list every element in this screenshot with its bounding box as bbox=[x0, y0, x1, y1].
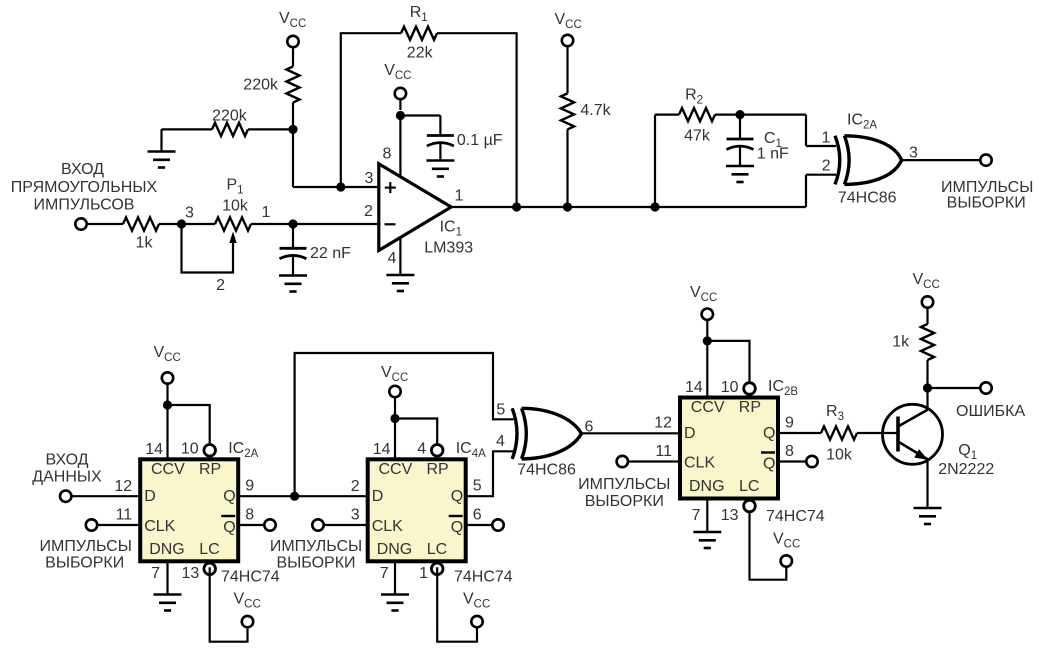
svg-text:14: 14 bbox=[145, 441, 163, 458]
svg-text:4: 4 bbox=[417, 441, 426, 458]
svg-text:1: 1 bbox=[419, 565, 428, 582]
svg-text:74HC86: 74HC86 bbox=[838, 189, 897, 206]
svg-text:2: 2 bbox=[822, 157, 831, 174]
svg-text:D: D bbox=[144, 488, 156, 505]
svg-text:14: 14 bbox=[373, 441, 391, 458]
svg-text:ОШИБКА: ОШИБКА bbox=[956, 403, 1025, 420]
svg-text:0.1 µF: 0.1 µF bbox=[457, 132, 503, 149]
svg-text:DNG: DNG bbox=[689, 478, 725, 495]
svg-text:ВХОД: ВХОД bbox=[45, 452, 88, 469]
svg-text:Q: Q bbox=[763, 456, 775, 473]
svg-text:ИМПУЛЬСЫ: ИМПУЛЬСЫ bbox=[270, 538, 362, 555]
svg-text:3: 3 bbox=[185, 205, 194, 222]
svg-text:22k: 22k bbox=[407, 45, 434, 62]
svg-text:LC: LC bbox=[427, 541, 447, 558]
svg-text:7: 7 bbox=[692, 507, 701, 524]
svg-text:220k: 220k bbox=[243, 77, 279, 94]
svg-text:DNG: DNG bbox=[149, 541, 185, 558]
svg-text:74HC74: 74HC74 bbox=[221, 569, 280, 586]
svg-text:8: 8 bbox=[785, 443, 794, 460]
svg-text:Q: Q bbox=[223, 488, 235, 505]
svg-text:5: 5 bbox=[496, 402, 505, 419]
svg-text:CLK: CLK bbox=[144, 518, 175, 535]
svg-text:74HC86: 74HC86 bbox=[517, 462, 576, 479]
svg-text:CLK: CLK bbox=[372, 518, 403, 535]
svg-text:CCV: CCV bbox=[151, 461, 185, 478]
svg-text:ИМПУЛЬСОВ: ИМПУЛЬСОВ bbox=[34, 196, 135, 213]
svg-text:CCV: CCV bbox=[691, 399, 725, 416]
svg-text:ВЫБОРКИ: ВЫБОРКИ bbox=[276, 554, 355, 571]
svg-text:12: 12 bbox=[654, 415, 672, 432]
svg-text:D: D bbox=[372, 488, 384, 505]
svg-text:8: 8 bbox=[383, 146, 392, 163]
svg-text:1: 1 bbox=[454, 187, 463, 204]
svg-text:LM393: LM393 bbox=[424, 239, 473, 256]
svg-text:Q: Q bbox=[451, 519, 463, 536]
svg-text:74HC74: 74HC74 bbox=[454, 569, 513, 586]
svg-text:2: 2 bbox=[216, 277, 225, 294]
svg-text:3: 3 bbox=[365, 170, 374, 187]
svg-text:220k: 220k bbox=[212, 108, 248, 125]
svg-text:9: 9 bbox=[785, 415, 794, 432]
svg-text:CCV: CCV bbox=[379, 461, 413, 478]
svg-text:LC: LC bbox=[739, 478, 759, 495]
svg-text:1k: 1k bbox=[136, 235, 154, 252]
svg-text:74HC74: 74HC74 bbox=[766, 508, 825, 525]
svg-text:13: 13 bbox=[721, 507, 739, 524]
svg-text:2: 2 bbox=[364, 203, 373, 220]
svg-text:6: 6 bbox=[473, 507, 482, 524]
svg-text:3: 3 bbox=[909, 144, 918, 161]
svg-text:ИМПУЛЬСЫ: ИМПУЛЬСЫ bbox=[40, 538, 132, 555]
svg-text:10k: 10k bbox=[222, 197, 249, 214]
svg-text:47k: 47k bbox=[684, 128, 711, 145]
svg-text:CLK: CLK bbox=[684, 455, 715, 472]
svg-text:1k: 1k bbox=[892, 334, 910, 351]
svg-text:9: 9 bbox=[245, 478, 254, 495]
svg-text:ВХОД: ВХОД bbox=[61, 161, 104, 178]
svg-text:10: 10 bbox=[181, 441, 199, 458]
svg-text:LC: LC bbox=[199, 541, 219, 558]
svg-text:ВЫБОРКИ: ВЫБОРКИ bbox=[585, 493, 664, 510]
svg-text:ИМПУЛЬСЫ: ИМПУЛЬСЫ bbox=[941, 179, 1033, 196]
svg-text:RP: RP bbox=[739, 399, 761, 416]
svg-text:DNG: DNG bbox=[377, 541, 413, 558]
svg-text:Q: Q bbox=[223, 519, 235, 536]
svg-text:1: 1 bbox=[262, 204, 271, 221]
svg-text:2: 2 bbox=[351, 478, 360, 495]
svg-text:4.7k: 4.7k bbox=[580, 102, 611, 119]
svg-text:Q: Q bbox=[451, 488, 463, 505]
svg-text:10k: 10k bbox=[826, 447, 853, 464]
svg-text:4: 4 bbox=[388, 250, 397, 267]
svg-text:ПРЯМОУГОЛЬНЫХ: ПРЯМОУГОЛЬНЫХ bbox=[11, 179, 158, 196]
svg-text:14: 14 bbox=[685, 379, 703, 396]
svg-text:ВЫБОРКИ: ВЫБОРКИ bbox=[947, 195, 1026, 212]
svg-text:10: 10 bbox=[721, 379, 739, 396]
svg-text:11: 11 bbox=[116, 507, 133, 524]
svg-text:1 nF: 1 nF bbox=[757, 146, 789, 163]
svg-text:D: D bbox=[684, 425, 696, 442]
svg-text:7: 7 bbox=[380, 565, 389, 582]
svg-text:5: 5 bbox=[473, 478, 482, 495]
svg-text:1: 1 bbox=[822, 130, 831, 147]
svg-text:13: 13 bbox=[182, 565, 200, 582]
svg-text:8: 8 bbox=[245, 507, 254, 524]
svg-text:2N2222: 2N2222 bbox=[938, 461, 994, 478]
svg-text:6: 6 bbox=[585, 419, 594, 436]
svg-text:11: 11 bbox=[655, 443, 672, 460]
svg-text:12: 12 bbox=[114, 478, 132, 495]
svg-text:7: 7 bbox=[151, 565, 160, 582]
svg-text:4: 4 bbox=[496, 433, 505, 450]
svg-text:RP: RP bbox=[199, 461, 221, 478]
svg-text:Q: Q bbox=[763, 425, 775, 442]
svg-text:ВЫБОРКИ: ВЫБОРКИ bbox=[45, 554, 124, 571]
svg-text:3: 3 bbox=[351, 507, 360, 524]
svg-text:ИМПУЛЬСЫ: ИМПУЛЬСЫ bbox=[578, 476, 670, 493]
svg-text:RP: RP bbox=[427, 461, 449, 478]
svg-text:22 nF: 22 nF bbox=[310, 245, 351, 262]
svg-text:ДАННЫХ: ДАННЫХ bbox=[32, 468, 102, 485]
